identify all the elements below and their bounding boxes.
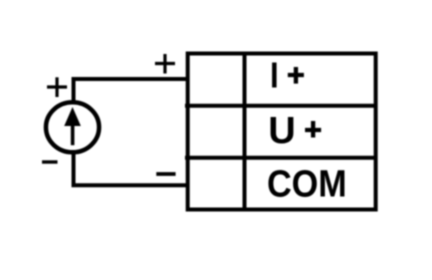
svg-text:U: U bbox=[268, 110, 295, 152]
svg-text:COM: COM bbox=[267, 162, 347, 205]
svg-text:I: I bbox=[270, 55, 279, 96]
